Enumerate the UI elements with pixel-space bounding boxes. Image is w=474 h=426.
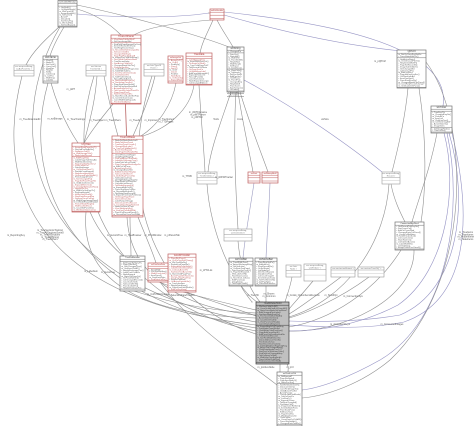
svg-text:Event >: Event > <box>150 66 158 69</box>
association edge E49 <box>289 250 401 327</box>
svg-text:m_StatePosTex(): m_StatePosTex() <box>278 381 294 384</box>
container node wx::map&lt;wxString, <box>14 65 34 76</box>
inheritance edge E3 <box>224 15 401 51</box>
container node wx::map&lt;wxString, <box>382 172 400 184</box>
association edge E18 <box>130 217 131 256</box>
container node wx::map&lt;wxString, <box>304 264 326 281</box>
svg-text:wxSize: wxSize <box>321 118 329 121</box>
association edge E44 <box>285 277 292 302</box>
svg-text:wxToolBar: wxToolBar <box>235 257 247 261</box>
association edge E31 <box>199 85 205 172</box>
svg-text:m_TreeOthers: m_TreeOthers <box>105 119 121 122</box>
container node wx::list&lt;wx <box>86 65 106 76</box>
svg-text:TreeItemData >: TreeItemData > <box>200 174 215 177</box>
association edge E5 <box>217 20 233 47</box>
svg-text:m_wxBitmaps: m_wxBitmaps <box>48 118 64 121</box>
svg-text:wxArtProvider: wxArtProvider <box>174 253 190 257</box>
association edge E33 <box>235 92 238 229</box>
association edge E22 <box>84 76 97 143</box>
association edge E16 <box>86 212 256 318</box>
class node TreeBrowserWnd <box>256 302 289 364</box>
svg-text:m_pParentTab: m_pParentTab <box>164 234 180 237</box>
svg-text:m_Common: m_Common <box>262 295 276 298</box>
association edge E19 <box>138 217 156 263</box>
svg-text:m_Imported: m_Imported <box>145 119 158 122</box>
association edge E43 <box>265 286 267 302</box>
svg-text:wxAuiPaneInfo >: wxAuiPaneInfo > <box>16 67 32 70</box>
association edge E41 <box>159 282 256 316</box>
inheritance edge E58 <box>289 133 463 327</box>
svg-text:m_DataReco(): m_DataReco() <box>228 66 242 69</box>
association edge E38 <box>238 241 260 302</box>
svg-text:wxImageList: wxImageList <box>170 56 182 59</box>
svg-text:m_ConnectionSys: m_ConnectionSys <box>343 295 363 298</box>
class node wxEvtHandler <box>210 9 224 20</box>
class node wxTimer <box>431 106 452 133</box>
svg-text:Record >: Record > <box>387 174 396 177</box>
svg-text:Tools: Tools <box>213 118 219 121</box>
svg-text:Node >: Node > <box>290 267 298 270</box>
class node CfgTree <box>72 143 100 212</box>
svg-text:m_TreeOthers: m_TreeOthers <box>42 238 58 241</box>
arrowhead junction dots <box>208 12 209 13</box>
association edge E52 <box>391 184 405 222</box>
association edge E30 <box>240 92 268 172</box>
svg-text:m_ActiveItemKeys: m_ActiveItemKeys <box>330 323 351 326</box>
svg-text:m_RecordGetConnTextWidth: m_RecordGetConnTextWidth <box>113 213 141 216</box>
svg-text:m_pWT: m_pWT <box>67 88 76 91</box>
association edge E6 <box>200 20 213 53</box>
svg-text:TreeItemId >: TreeItemId > <box>90 67 103 70</box>
svg-text:m_TreeAll: m_TreeAll <box>130 119 141 122</box>
svg-text:m_SpndOpt: m_SpndOpt <box>325 294 338 297</box>
svg-text:TreeData: TreeData <box>194 52 205 56</box>
container node wx::map&lt;wxString, <box>197 172 217 184</box>
association edge E8 <box>77 9 121 35</box>
association edge E10 <box>26 27 59 65</box>
class node wxToolBar <box>229 258 253 286</box>
svg-text:m_ItemsTree: m_ItemsTree <box>101 271 116 274</box>
association edge E39 <box>183 292 256 310</box>
svg-text:m_TreeDownloadbl: m_TreeDownloadbl <box>20 118 41 121</box>
association edge E47 <box>289 277 369 318</box>
class node wxFrame <box>43 56 58 83</box>
association edge E21 <box>51 83 78 143</box>
association edge E4 <box>77 5 229 47</box>
svg-text:m_TreeTbl: m_TreeTbl <box>247 294 259 297</box>
svg-text:m_ReportingKey: m_ReportingKey <box>7 234 26 237</box>
svg-text:TreeCtrlBase: TreeCtrlBase <box>120 135 136 139</box>
svg-text:wx::vector<wxVariant >: wx::vector<wxVariant > <box>332 267 354 270</box>
svg-text:wxTreeListCtrl: wxTreeListCtrl <box>283 372 297 375</box>
svg-text:+ PosTextTextActive: + PosTextTextActive <box>112 100 131 103</box>
svg-text:m_TTDB: m_TTDB <box>182 175 192 178</box>
svg-text:m_ConnectedImages: m_ConnectedImages <box>381 323 405 326</box>
svg-text:wxString: wxString <box>231 46 242 50</box>
svg-text:m_TreeBrowser: m_TreeBrowser <box>125 234 142 237</box>
association edge E51 <box>392 88 408 172</box>
association edge E13 <box>41 83 256 328</box>
svg-text:+ PosDataCountGetNod(): + PosDataCountGetNod() <box>257 360 281 363</box>
svg-text:wxFont: wxFont <box>251 172 258 175</box>
svg-text:m_StateItems: m_StateItems <box>459 238 474 241</box>
container node wx::list&lt;TypeOf <box>144 64 164 76</box>
svg-text:QPCtrl: QPCtrl <box>408 49 416 53</box>
svg-text:m_LabelItem: m_LabelItem <box>84 270 98 273</box>
svg-text:m_SelectionStateTreeIDs: m_SelectionStateTreeIDs <box>167 294 195 297</box>
association edge E35 <box>207 184 257 302</box>
svg-text:m_WinStateStateConn(): m_WinStateStateConn() <box>73 208 96 211</box>
class node wxArtProvider <box>168 254 196 292</box>
association edge E50 <box>289 250 414 331</box>
svg-text:m_ItemsInTree: m_ItemsInTree <box>107 234 124 237</box>
association edge E45 <box>289 281 313 309</box>
association edge E29 <box>238 92 253 172</box>
inheritance edge E2 <box>224 12 443 106</box>
svg-text:+ HeightViewDataPos: + HeightViewDataPos <box>121 286 141 289</box>
association edge E11 <box>33 27 256 322</box>
container node wx::list&lt; <box>286 265 301 277</box>
svg-text:wx::vector<TreeObj* >: wx::vector<TreeObj* > <box>361 267 382 270</box>
association edge E17 <box>127 217 256 315</box>
svg-text:m_WTCList: m_WTCList <box>200 269 213 272</box>
class node wxFont <box>248 172 260 183</box>
inheritance edge E57 <box>289 133 459 321</box>
class node wxBitmapBndl <box>262 172 278 183</box>
class node TreeData <box>186 53 212 85</box>
association edge E37 <box>266 183 270 258</box>
inheritance edge E34 <box>244 80 382 172</box>
association edge E32 <box>208 92 231 172</box>
svg-text:wxScrolledWindow: wxScrolledWindow <box>59 2 76 4</box>
svg-text:+ ImageGetC: + ImageGetC <box>432 125 445 128</box>
svg-text:m_pDFWTracker: m_pDFWTracker <box>215 176 233 179</box>
container node wx::vector&lt;wxVariant &gt; <box>331 267 355 277</box>
association edge E23 <box>104 76 118 136</box>
svg-text:m_ColSTWinImages: m_ColSTWinImages <box>147 293 170 296</box>
svg-text:ConnectionMgrRecd: ConnectionMgrRecd <box>400 222 418 225</box>
svg-text:m_TreeObject: m_TreeObject <box>89 119 104 122</box>
association edge E40 <box>134 291 256 313</box>
class node ConnectionMgrRecd <box>395 222 424 250</box>
class node TreeCtrlBase <box>112 136 143 217</box>
svg-text:CfgTree: CfgTree <box>81 142 91 146</box>
inheritance edge E1 <box>77 13 209 17</box>
svg-text:m_TTDPages: m_TTDPages <box>159 121 175 124</box>
class node TreeEvtHandler <box>120 256 145 291</box>
svg-text:wxTreeItemData: wxTreeItemData <box>151 263 166 266</box>
association edge E61 <box>287 364 288 372</box>
svg-text:+ ColChangedEditList: + ColChangedEditList <box>187 81 208 84</box>
association edge E26 <box>143 85 194 136</box>
association edge E60 <box>279 364 281 372</box>
association edge E14 <box>84 76 256 331</box>
association edge E12 <box>14 76 256 325</box>
svg-text:Icons: Icons <box>237 118 244 121</box>
association edge E53 <box>419 88 425 222</box>
class node wxImageList <box>168 56 183 83</box>
association edge E59 <box>302 62 457 398</box>
association edge E20 <box>90 212 123 256</box>
container node wx::map&lt;wxString, <box>224 229 252 241</box>
association edge E25 <box>141 83 176 136</box>
inheritance edge E55 <box>289 133 450 331</box>
inheritance edge E56 <box>302 133 453 390</box>
svg-text:wxWindow* >: wxWindow* > <box>309 266 322 269</box>
svg-text:m_pActiveNode: m_pActiveNode <box>258 366 276 369</box>
svg-text:wxBitmapBndl: wxBitmapBndl <box>264 172 277 175</box>
svg-text:wxFrame: wxFrame <box>45 55 56 59</box>
association edge E15 <box>138 76 256 334</box>
svg-text:m_PrintWindow: m_PrintWindow <box>145 234 162 237</box>
class node wxScrolledWindow <box>58 1 77 28</box>
container node wx::vector&lt;TreeObj* &gt; <box>358 267 384 277</box>
svg-text:TreeEvtHandler: TreeEvtHandler <box>125 256 140 259</box>
association edge E62 <box>160 282 277 385</box>
svg-text:wxEvtHandler: wxEvtHandler <box>211 9 224 12</box>
svg-text:m_pUI: m_pUI <box>286 366 293 369</box>
svg-text:TreeBrowserWnd: TreeBrowserWnd <box>264 302 283 305</box>
svg-text:m_pQPCtrl: m_pQPCtrl <box>374 60 386 63</box>
association edge E27 <box>126 104 127 136</box>
class node TreeCtrlPanel <box>111 35 141 104</box>
svg-text:wxTimer: wxTimer <box>437 105 447 109</box>
association edge E28 <box>84 104 113 143</box>
class node wxString <box>227 47 244 92</box>
class node wxMenuBar <box>255 258 277 286</box>
association edge E36 <box>243 183 254 258</box>
association edge E54 <box>412 133 437 222</box>
svg-text:+ SetTextExpan(): + SetTextExpan() <box>59 23 75 26</box>
association edge E9 <box>50 27 64 56</box>
svg-text:TreeCtrlPanel: TreeCtrlPanel <box>118 34 134 38</box>
svg-text:m_OptionItemsRecords: m_OptionItemsRecords <box>294 294 320 297</box>
association edge E48 <box>289 184 389 317</box>
svg-text:m_pWTDir: m_pWTDir <box>191 116 203 119</box>
class node QPCtrl <box>397 50 426 88</box>
svg-text:wxMenuBar: wxMenuBar <box>259 257 273 261</box>
class node wxTreeItemData <box>148 263 168 282</box>
association edge E46 <box>289 277 341 314</box>
association edge E7 <box>134 20 211 35</box>
association edge E42 <box>241 286 252 302</box>
association edge E24 <box>133 76 155 136</box>
svg-text:wxTreeItemId >: wxTreeItemId > <box>231 231 246 234</box>
class node wxTreeListCtrl <box>277 372 302 426</box>
svg-text:m_TreeTrainings: m_TreeTrainings <box>67 118 86 121</box>
